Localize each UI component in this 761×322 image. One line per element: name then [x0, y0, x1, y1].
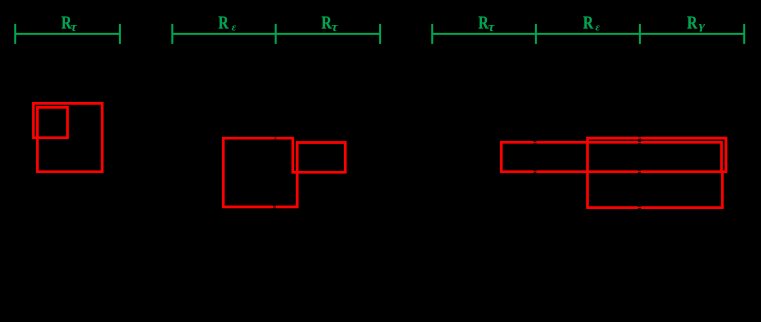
- joint pinch panel b bottom edge: [273, 205, 276, 208]
- joint pinch panel c long rect top edge at tick3: [638, 141, 641, 144]
- joint pinch panel c long rect bottom edge at tick2: [534, 170, 537, 173]
- ruler 1 left tick: [14, 24, 16, 44]
- svg-text:ε: ε: [232, 21, 237, 33]
- svg-text:γ: γ: [699, 19, 706, 31]
- svg-text:τ: τ: [488, 20, 495, 34]
- ruler 3 tick 3: [639, 24, 641, 44]
- joint pinch panel c tall rect top edge: [638, 137, 641, 140]
- label R_tau ruler 2: [321, 13, 338, 34]
- svg-text:τ: τ: [70, 20, 77, 34]
- joint pinch panel b top edge: [275, 137, 277, 140]
- ruler 1 (bracket over panel a): [15, 24, 120, 44]
- label R_epsilon ruler 3: [583, 13, 600, 33]
- ruler 3 tick 4: [743, 24, 745, 44]
- label R_tau ruler 3: [478, 13, 495, 34]
- label R_gamma ruler 3: [687, 13, 706, 33]
- svg-text:R: R: [583, 13, 594, 33]
- joint pinch panel c long rect bottom edge at tick3: [638, 170, 641, 173]
- joint pinch panel c tall rect bottom edge: [638, 206, 641, 209]
- ruler 1 line: [15, 33, 120, 35]
- ruler 2 line: [172, 33, 380, 35]
- ruler 1 right tick: [119, 24, 121, 44]
- ruler 3 (bracket over panel c): [432, 24, 744, 44]
- panel a interlocked rectangles (pinwheel polygon): [33, 103, 102, 171]
- panel b interlocked rectangles (pinwheel polygon): [223, 138, 345, 207]
- svg-text:τ: τ: [331, 20, 338, 34]
- ruler 2 left tick: [171, 24, 173, 44]
- ruler 3 tick 2: [535, 24, 537, 44]
- joint pinch panel c long rect top edge at tick2: [534, 141, 537, 144]
- ruler 3 tick 1: [431, 24, 433, 44]
- ruler 2 right tick: [379, 24, 381, 44]
- label R_tau ruler 1: [61, 13, 78, 34]
- panel c long rectangle: [501, 142, 721, 171]
- panel c tall hexagon rectangle: [588, 138, 727, 208]
- svg-text:ε: ε: [595, 21, 600, 33]
- ruler 2 (bracket over panel b): [172, 24, 380, 44]
- svg-text:R: R: [687, 13, 698, 33]
- ruler 2 middle tick: [275, 24, 277, 44]
- svg-text:R: R: [218, 13, 229, 33]
- label R_epsilon ruler 2: [218, 13, 236, 33]
- ruler 3 line: [432, 33, 744, 35]
